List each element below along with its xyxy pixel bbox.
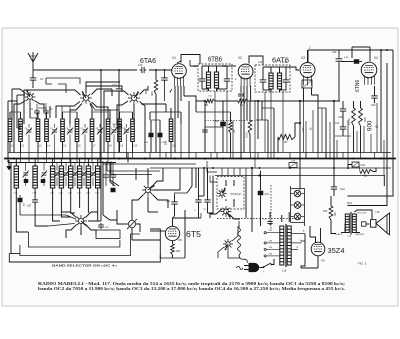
svg-text:C1: C1	[40, 77, 44, 81]
V2 grid cap wire	[249, 56, 263, 65]
chassis bus thick y158.5	[4, 158, 396, 160]
mains switch	[261, 267, 264, 269]
capacitor T1 right	[224, 77, 230, 84]
bus line y162.5 left	[8, 162, 116, 164]
wire bottom mid verticals	[203, 168, 205, 196]
band switch wafer S6	[142, 184, 155, 196]
wire T2 internals	[263, 66, 286, 68]
tone pot P2	[127, 219, 137, 229]
svg-text:R11: R11	[363, 175, 368, 178]
capacitors row2 right end	[103, 173, 109, 180]
dashed shield line y218.5	[217, 218, 300, 220]
wire upper-left nested loops	[16, 103, 18, 128]
svg-text:1.5 R: 1.5 R	[238, 95, 244, 98]
wire S5 into loops	[80, 227, 82, 235]
capacitor C15 blob	[158, 133, 163, 138]
bus comb ticks	[20, 153, 22, 159]
svg-text:400: 400	[150, 91, 154, 96]
speaker	[371, 213, 390, 235]
pickup dashed box	[217, 177, 244, 210]
band selector loop middle	[20, 234, 140, 256]
wire C2 C3 links	[36, 115, 38, 119]
coil L23	[86, 166, 90, 188]
wire transformer to speaker	[354, 210, 372, 219]
V6 pins and R14	[172, 241, 174, 244]
band switch wafer S2	[80, 91, 92, 104]
capacitor C11	[116, 123, 122, 130]
svg-text:C21: C21	[166, 200, 171, 203]
wire mid horizontals extra	[196, 111, 231, 113]
V4 pins	[365, 75, 375, 85]
capacitor C24 box	[352, 162, 359, 167]
bus line y152.5	[8, 152, 391, 154]
svg-text:4Ω: 4Ω	[24, 203, 26, 206]
resistor R12	[329, 206, 333, 220]
capacitor C19	[336, 56, 343, 64]
svg-text:4Ω: 4Ω	[333, 212, 337, 216]
svg-text:V6: V6	[178, 238, 182, 242]
svg-text:L12: L12	[222, 65, 227, 68]
wire V5 top	[310, 237, 316, 243]
svg-text:C23: C23	[265, 194, 270, 196]
dial lamp at y216.5	[294, 213, 301, 220]
svg-text:6TA6: 6TA6	[140, 58, 156, 65]
capacitor C10	[116, 87, 122, 94]
coil L18	[33, 166, 37, 188]
wire right-down bends	[348, 168, 394, 196]
V3 pins	[304, 75, 312, 85]
svg-text:0.1M: 0.1M	[246, 133, 249, 138]
IF transformer T1 box	[198, 64, 232, 91]
svg-text:L13: L13	[258, 61, 263, 64]
svg-text:C22: C22	[340, 187, 345, 191]
svg-text:C19: C19	[332, 51, 337, 54]
capacitor C3	[43, 109, 49, 115]
resistor R9	[359, 108, 363, 126]
capacitor Cd2	[204, 198, 210, 205]
capacitor C18	[340, 107, 346, 114]
capacitor C25 blob	[354, 59, 360, 64]
wire V3 drops	[303, 88, 305, 101]
V2 pins	[241, 76, 250, 87]
capacitor T2 left	[260, 78, 266, 85]
svg-text:PICK-UP: PICK-UP	[231, 192, 242, 196]
capacitor C17	[340, 125, 346, 132]
capacitor T2 right	[283, 78, 289, 85]
svg-text:C17: C17	[335, 122, 340, 125]
coil L10b extra	[169, 119, 173, 142]
V3 diode load box	[302, 80, 312, 88]
wire nested Ls under bus left-mid	[103, 161, 196, 164]
V1 pins	[175, 76, 184, 87]
wire comb under pickup	[221, 168, 223, 176]
capacitor C20	[371, 94, 377, 101]
capacitor C21	[171, 200, 177, 207]
wire y215 feed to S5	[20, 214, 66, 216]
capacitor C22	[331, 185, 337, 192]
switch wafer S7b upper	[217, 188, 226, 198]
svg-text:BAND SELECTOR ON «OC 4»: BAND SELECTOR ON «OC 4»	[52, 264, 117, 268]
wire C2C3 top link	[150, 111, 181, 113]
wire under bottom coils	[123, 223, 128, 225]
coil L19	[50, 166, 54, 188]
band switch wafer S5	[75, 215, 87, 227]
wire S7c arms	[228, 249, 240, 258]
dashed shield vertical x271	[270, 185, 272, 230]
wire S6 arms	[147, 168, 149, 184]
svg-text:C18: C18	[338, 116, 343, 119]
coil L12	[214, 72, 218, 88]
coil L7	[90, 119, 94, 142]
wire S1 drops	[14, 101, 26, 153]
svg-text:C20: C20	[371, 104, 376, 107]
capacitor C-T4 top	[267, 220, 272, 226]
coil L6	[75, 119, 79, 142]
band selector loop outer	[9, 229, 160, 262]
svg-text:BROWN: BROWN	[355, 234, 364, 236]
svg-text:6AT6: 6AT6	[272, 58, 289, 65]
svg-text:C24: C24	[361, 164, 366, 167]
wire staircase mid	[93, 220, 101, 222]
trimmers row 2	[23, 171, 29, 178]
svg-text:50 K: 50 K	[144, 88, 148, 94]
mains plug	[236, 263, 261, 271]
wire T1 feed from V1	[190, 65, 198, 67]
svg-text:C10: C10	[112, 84, 117, 87]
wire T1 internals	[202, 65, 217, 67]
wire left mid verticals	[102, 163, 104, 216]
capacitor C1	[30, 76, 36, 83]
svg-text:V5: V5	[321, 259, 325, 263]
wire left of S4	[104, 110, 110, 124]
capacitor C14 blob	[149, 133, 154, 138]
capacitor C29 blob left	[18, 198, 23, 203]
resistor R0.1M mid	[248, 120, 252, 134]
resistor R14	[171, 244, 175, 255]
wire left edge verticals	[7, 101, 9, 159]
svg-text:900: 900	[367, 120, 374, 131]
wire mid comb verticals	[214, 91, 216, 153]
band selector loop inner	[28, 232, 120, 247]
wire screen line y101	[196, 100, 206, 102]
wire pot drops	[131, 204, 133, 220]
svg-text:banda OC2 da 7050 a 11.900 kc/: banda OC2 da 7050 a 11.900 kc/s; banda O…	[38, 287, 345, 291]
resistor R3	[154, 80, 158, 94]
coil L11	[206, 72, 210, 88]
coil L20	[59, 166, 63, 188]
svg-text:6T5: 6T5	[186, 229, 201, 239]
wire pickup wires	[210, 209, 222, 218]
wire T4 top	[281, 215, 283, 222]
wire left bottom verticals	[10, 163, 12, 254]
svg-text:C13: C13	[138, 64, 143, 67]
wire V4 grid line	[369, 47, 371, 62]
wire det link	[196, 217, 201, 219]
capacitor C23 blob	[258, 191, 264, 196]
wire y101 drops	[204, 101, 206, 153]
capacitor T1 left	[199, 77, 205, 84]
wire S2 staircase left	[24, 90, 81, 124]
svg-text:4 5n: 4 5n	[302, 127, 305, 132]
power transformer T4 windings	[280, 226, 284, 265]
capacitor C26 box	[289, 163, 297, 168]
wire V6 grid from bus	[150, 230, 165, 232]
capacitor Cd1	[195, 198, 201, 205]
switch wafer S7 pickup	[221, 206, 232, 218]
coil L22	[77, 166, 81, 188]
wire top line y50 V3-V4	[308, 49, 393, 51]
bus junction dots	[13, 157, 15, 159]
wire top coil feeds	[10, 111, 21, 113]
speaker field magnet	[362, 222, 367, 226]
svg-text:L15: L15	[376, 211, 381, 214]
svg-text:BLACK: BLACK	[335, 233, 343, 236]
band selector small box	[96, 230, 120, 239]
wire V2 pin drops	[240, 86, 242, 93]
band switch wafer S1	[25, 90, 36, 102]
wire osc coil L15 wavy	[238, 228, 241, 255]
wire upper-left horizontals	[17, 127, 21, 129]
wire S4 arms	[104, 91, 129, 110]
resistor R7	[278, 134, 295, 139]
resistor R11	[360, 170, 373, 174]
coil L2	[19, 119, 23, 142]
wire lamp top feed	[290, 186, 292, 189]
resistor R5 vertical	[229, 122, 233, 133]
svg-text:ORANGE: ORANGE	[344, 223, 347, 232]
wire right mid verticals	[380, 50, 382, 153]
coil L10	[131, 119, 135, 142]
svg-text:0.5 M: 0.5 M	[347, 119, 351, 126]
capacitor C27	[32, 200, 38, 202]
bus line y168	[150, 167, 391, 169]
trimmer caps row 1	[26, 128, 32, 135]
junction dots y70	[100, 69, 102, 71]
capacitor C16 blob	[220, 122, 226, 127]
wire V5 drops	[301, 267, 318, 269]
pickup contacts	[225, 184, 227, 186]
V3 top cap	[307, 50, 309, 62]
wire mid verticals extra	[188, 101, 190, 153]
svg-text:V4: V4	[374, 56, 378, 60]
svg-text:35Z4: 35Z4	[328, 246, 345, 255]
capacitor C2	[34, 109, 40, 115]
svg-text:FIG. 2: FIG. 2	[358, 262, 367, 266]
coil L1	[8, 119, 12, 142]
svg-text:V3: V3	[301, 56, 305, 60]
capacitor blob x113	[111, 188, 116, 193]
capacitor blobs row2	[24, 179, 29, 183]
coil L24	[96, 166, 100, 188]
capacitor C28 near S5	[98, 223, 104, 229]
svg-text:V2: V2	[238, 56, 242, 60]
bus line y175.5	[215, 175, 385, 177]
V1 grid cap wire	[177, 61, 181, 63]
svg-text:C27: C27	[27, 205, 32, 208]
wire S2 top to V1 line	[86, 82, 120, 92]
wire T1 to V2 grid	[227, 65, 236, 67]
wire x150 x181 verticals	[149, 112, 151, 120]
IF transformer T2 box	[255, 65, 290, 92]
wire antenna to switch	[32, 81, 34, 88]
wire wafer2 loops right	[86, 86, 122, 93]
wire det verticals	[251, 168, 253, 232]
resistor R1	[238, 99, 248, 103]
T4 secondary wires	[291, 233, 305, 235]
wire mid links	[151, 119, 160, 121]
wire V1 pin drops	[174, 86, 176, 153]
wire S6 staircase right	[154, 168, 181, 190]
resistor R8	[352, 108, 356, 126]
dial lamp at y205	[294, 202, 301, 209]
svg-text:50K: 50K	[165, 140, 168, 145]
output transformer L17 windings	[345, 214, 349, 233]
coil L4	[45, 119, 49, 142]
resistor R4	[206, 99, 215, 103]
svg-text:6TN6: 6TN6	[355, 80, 361, 92]
capacitor c-extra x205	[202, 128, 208, 134]
coil L14	[277, 73, 281, 89]
coil L9	[118, 119, 122, 142]
dial lamps group rails	[290, 189, 292, 223]
wire long vertical x101	[100, 70, 102, 221]
svg-text:L16: L16	[282, 269, 287, 273]
chassis arrow top-left	[7, 160, 11, 170]
svg-text:YELLOW: YELLOW	[357, 212, 367, 214]
svg-text:L11: L11	[193, 65, 197, 68]
coil L21	[69, 166, 73, 188]
capacitor C13	[140, 67, 147, 73]
wire grid-cap line y54	[181, 55, 200, 65]
wire left stub	[17, 94, 25, 96]
V5 pins	[317, 256, 319, 268]
wire bottom coil drops	[16, 195, 28, 232]
svg-text:RADIO MARELLI - Mod. 117. Onda: RADIO MARELLI - Mod. 117. Onda media da …	[38, 282, 345, 286]
wire left loops y78-86	[46, 78, 80, 84]
coil L3	[36, 119, 40, 142]
svg-text:6TB6: 6TB6	[208, 57, 222, 64]
dotted shield line	[205, 120, 256, 122]
band switch wafer S4 oscillator	[128, 91, 140, 104]
wire antenna line y70	[33, 69, 137, 71]
bus comb ticks lower left	[20, 159, 22, 163]
coil L8	[106, 119, 110, 142]
svg-text:R12: R12	[323, 210, 328, 213]
capacitor at V1 left	[161, 76, 167, 83]
switch wafer S7c lower	[223, 239, 233, 250]
dial lamp at y193.5	[294, 190, 301, 197]
coil L13	[269, 73, 273, 89]
svg-text:R13: R13	[347, 201, 352, 205]
wire T2 to V3	[286, 67, 299, 70]
T4 primary taps	[264, 232, 266, 234]
antenna	[28, 52, 38, 77]
svg-text:V1: V1	[172, 56, 176, 60]
coil L5	[61, 119, 65, 142]
svg-text:R14: R14	[176, 250, 181, 253]
wire misc left	[7, 159, 9, 163]
svg-text:R7: R7	[284, 140, 288, 144]
coil L17	[14, 166, 18, 188]
